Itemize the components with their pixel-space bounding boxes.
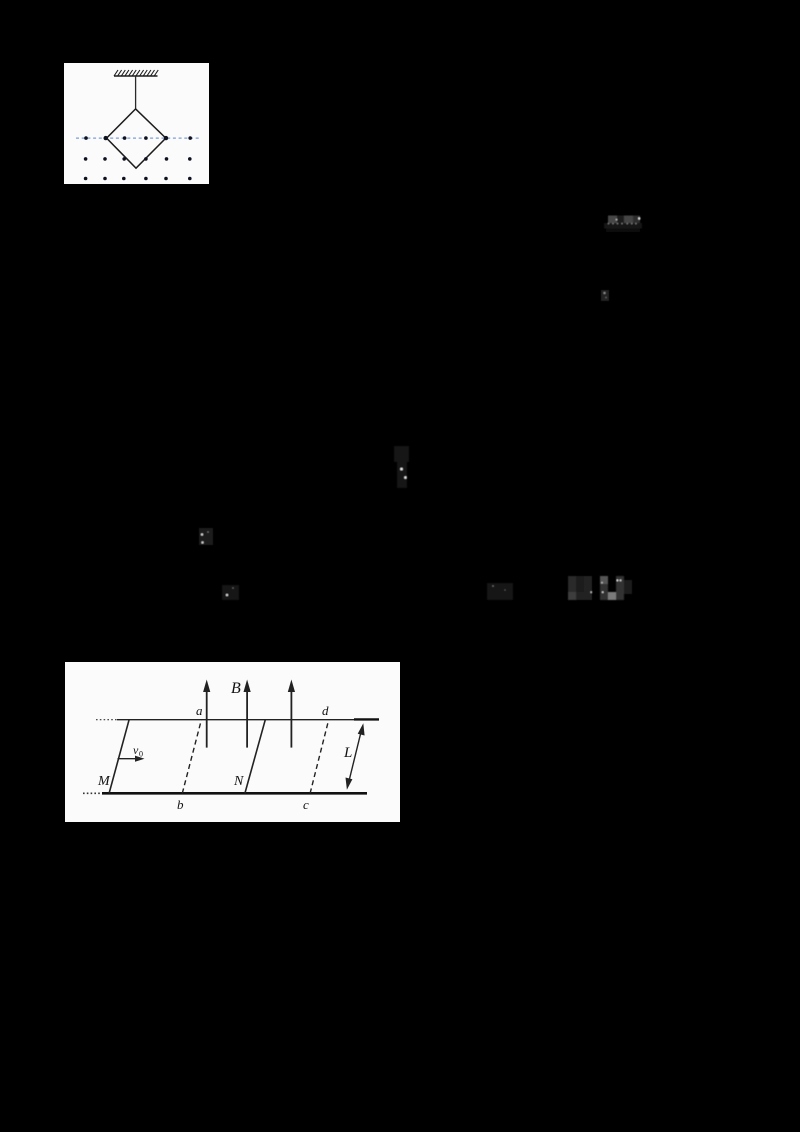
- v0 arrow: [118, 756, 145, 762]
- string: [135, 76, 137, 109]
- rod M (solid, left): [109, 720, 129, 794]
- faint mark: patch left upper: [199, 528, 213, 545]
- faint mark: patch left lower: [222, 585, 239, 600]
- field dots row 2: [84, 157, 192, 161]
- field arrow 2 (B): [244, 680, 251, 748]
- field arrow 3: [288, 680, 295, 748]
- rod position a-b (dashed): [182, 720, 201, 794]
- ceiling line: [114, 75, 158, 77]
- field dots row 3: [84, 177, 192, 181]
- field boundary: dashed blue line: [76, 137, 201, 139]
- top rail: [117, 719, 370, 721]
- rod position c-d (dashed): [310, 720, 329, 794]
- rod N (solid, middle): [245, 720, 265, 794]
- faint mark: equation blocks right lower: [568, 576, 632, 600]
- faint mark cluster top right (two gray blocks + specks): [604, 216, 642, 233]
- ceiling hatching: [114, 70, 158, 76]
- figure panel 2: rails M N with sliding rods a-b, c-d in field B: [65, 662, 400, 822]
- L dimension arrow (double headed): [346, 723, 365, 790]
- bottom rail: [102, 792, 367, 795]
- square loop (diamond): [107, 109, 166, 168]
- faint mark: patch centre lower: [487, 583, 513, 600]
- field dots row 1 (on boundary): [84, 136, 192, 140]
- figure panel 1: conducting loop hanging from ceiling above field region: [64, 63, 209, 184]
- bottom rail dotted lead-in: [83, 792, 102, 794]
- field arrow 1: [203, 680, 210, 748]
- top rail right thick end: [354, 718, 379, 720]
- faint mark: letter-like blob mid right: [601, 290, 609, 301]
- faint mark: small column near centre: [394, 446, 409, 488]
- top rail dotted lead-in: [96, 719, 117, 721]
